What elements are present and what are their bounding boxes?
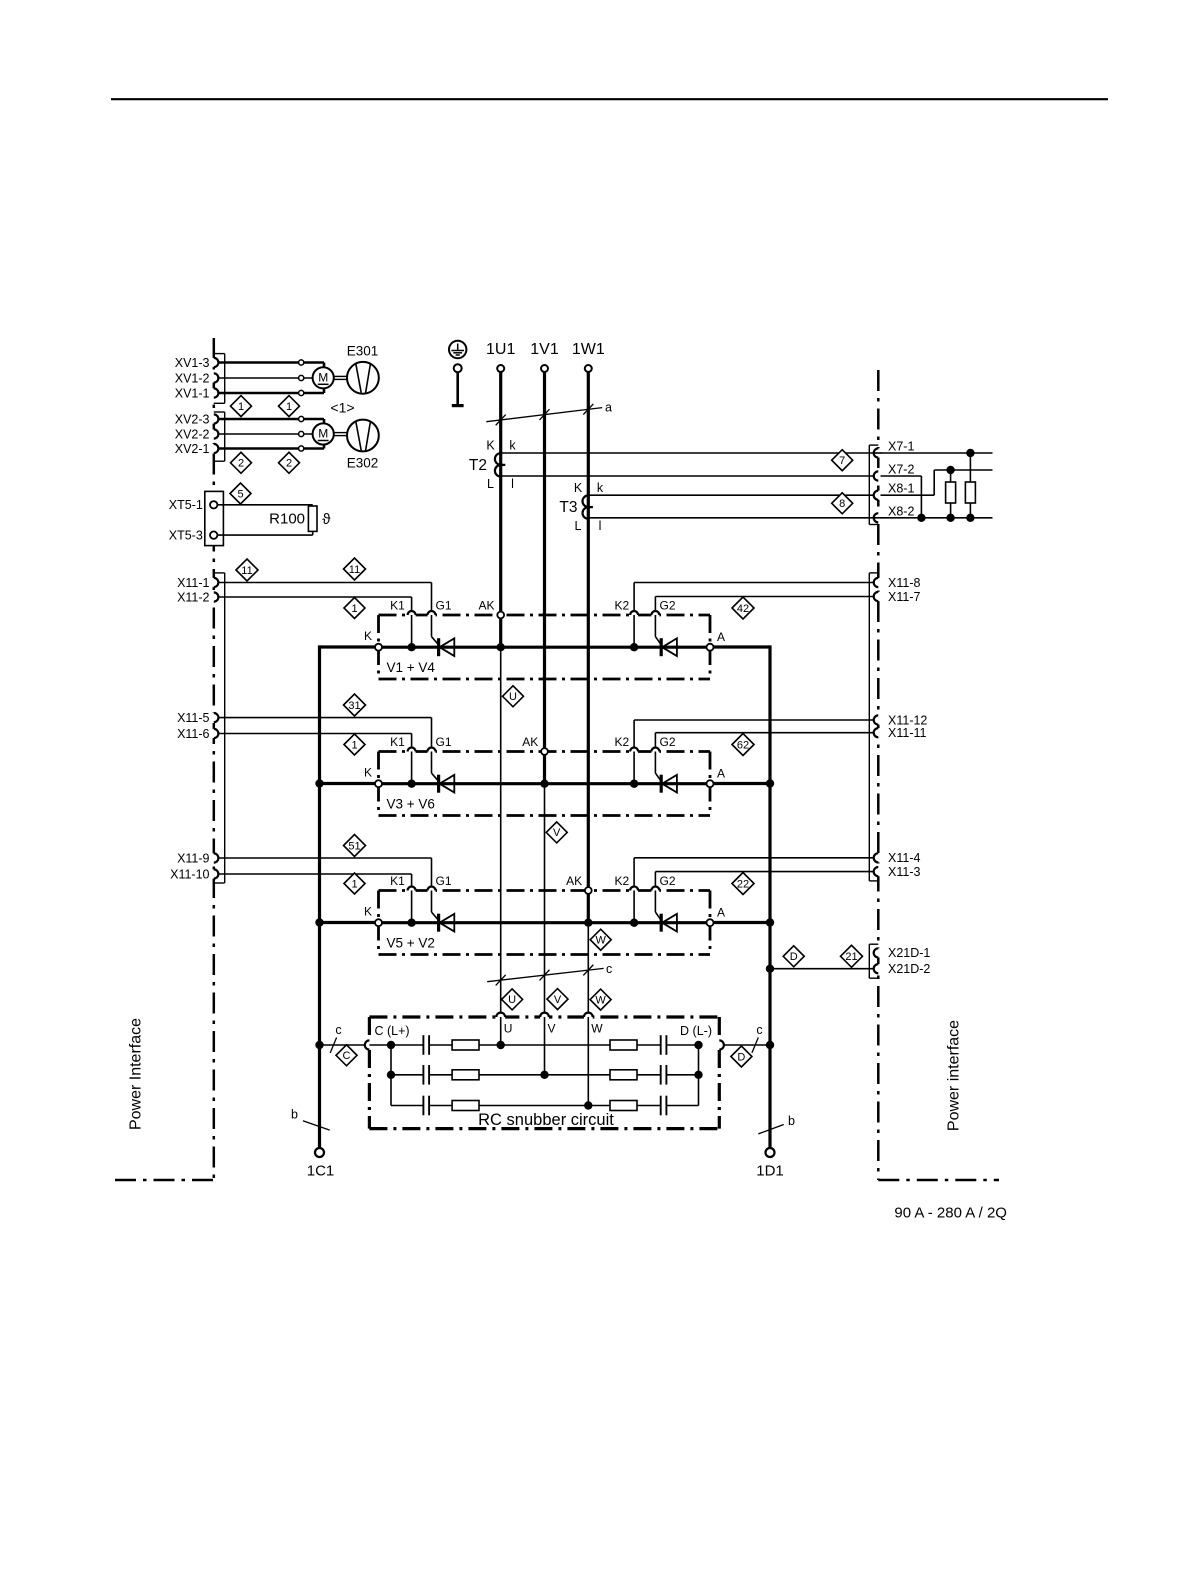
wire XT5-3 to R100 [217,534,312,536]
svg-text:l: l [599,519,602,533]
svg-text:X11-8: X11-8 [888,576,920,590]
resistor left 1 [452,1040,479,1050]
AK junction [497,643,505,651]
G1 gate lead [431,752,433,774]
wire module1 K to left bus [320,645,376,648]
terminal X8-2 [876,513,880,522]
wire phase W (below module, thin) [587,923,589,1013]
thyristor right of V3+V6 [660,775,663,793]
wire X11-11 to G2 [655,732,873,734]
diamond C [336,1045,357,1066]
svg-text:K1: K1 [390,599,405,613]
svg-text:RC snubber circuit: RC snubber circuit [478,1111,614,1129]
svg-text:c: c [756,1023,762,1037]
diamond 21 [841,945,863,967]
wire XT5-1 to R100 [217,504,312,506]
K2 interior lead [633,891,635,923]
svg-text:E301: E301 [347,343,379,358]
pin K [375,644,382,651]
svg-text:XV1-1: XV1-1 [175,386,210,400]
svg-text:L: L [487,477,494,491]
svg-text:XV2-2: XV2-2 [175,427,210,441]
diamond 11 (second) [344,558,366,580]
pin AK [497,612,504,619]
G1 gate lead [431,891,433,913]
bracket X11 right group [868,573,870,881]
terminal 1C1 [315,1148,324,1157]
svg-text:42: 42 [737,603,749,615]
header rule [111,98,1108,100]
burden resistor 2 [969,453,971,482]
RC snubber box [369,1015,719,1018]
G2 gate lead [654,615,656,637]
slash mark on phase at x=500.7 [496,415,506,426]
wire X11-10 to K1 [218,873,411,875]
svg-text:b: b [291,1108,298,1122]
svg-text:1: 1 [238,401,244,413]
snubber row 1 wires [391,1044,423,1046]
wire X11-4 to K2 [634,857,874,859]
pin G2 [651,888,659,892]
svg-text:K: K [364,629,372,643]
svg-text:T2: T2 [469,457,487,474]
motor M2 [313,423,334,444]
wire module2 K to left bus [320,782,376,785]
svg-text:XV2-1: XV2-1 [175,442,210,456]
terminal block XT5 [205,491,224,545]
wire XV2-3 to fan motor [218,418,324,421]
svg-text:U: U [508,994,516,1006]
left DC bus (C) [318,645,321,1148]
thyristor module V5+V2 box [379,889,711,892]
svg-text:ϑ: ϑ [322,511,331,528]
svg-text:X11-3: X11-3 [888,865,920,879]
svg-text:XV1-2: XV1-2 [175,371,210,385]
bracket XV1 group [224,354,226,404]
wire X11-5 to G1 [218,717,431,719]
terminal XT5-3 [210,531,217,538]
diamond U (below V1+V4) [503,686,524,707]
svg-text:c: c [606,962,612,976]
wire left bus to C(L+) [320,1044,365,1046]
diamond D (X21D wire) [783,946,804,967]
diamond 42 [732,597,754,619]
svg-text:X11-9: X11-9 [177,851,209,865]
wire module1 A to right bus [713,645,770,648]
capacitor right 3 [660,1096,662,1116]
terminal XV2-2 [212,429,216,438]
diamond V (above snubber) [547,989,568,1010]
svg-text:1: 1 [286,401,292,413]
wire T3 l to X8-2 [588,517,992,519]
svg-text:8: 8 [839,498,845,510]
K2 interior lead [633,752,635,784]
wire XV1-1 to fan motor [218,392,324,395]
thyristor module V3+V6 box [379,750,711,753]
svg-text:k: k [509,439,516,453]
thyristor left of V1+V4 [437,638,440,656]
wire D(L-) to right bus [724,1044,770,1046]
main cathode-anode wire V5+V2 [379,921,711,924]
svg-text:C: C [343,1050,351,1062]
terminal XV1-1 [212,388,216,397]
wire X11-6 to K1 [218,733,411,735]
diamond 7 [832,450,853,471]
terminal X11-10 [212,869,216,878]
diamond 1 (XV1 right) [279,396,300,417]
resistor right 1 [610,1040,637,1050]
capacitor left 3 [422,1096,424,1116]
svg-text:D: D [737,1051,745,1063]
svg-text:1D1: 1D1 [756,1163,784,1180]
pin G1 [428,613,436,617]
pin K1 [408,888,416,892]
svg-text:X21D-1: X21D-1 [888,946,930,960]
slash mark on phase at x=500.7 (c group) [496,975,506,986]
thyristor module V1+V4 box [379,614,711,617]
diamond D (snubber out) [731,1046,752,1067]
svg-text:X11-1: X11-1 [177,576,209,590]
main cathode-anode wire V3+V6 [379,782,711,785]
diamond 8 [832,493,853,514]
svg-text:2: 2 [238,458,244,470]
slash mark b (left) [303,1121,330,1130]
terminal X11-8 [876,578,880,587]
wire module2 A to right bus [713,782,770,785]
diamond 11 (near X11-1) [236,559,258,581]
resistor left 3 [452,1101,479,1111]
pin K2 [630,749,638,753]
svg-text:a: a [605,400,612,414]
svg-text:A: A [717,630,725,644]
pin G1 [428,749,436,753]
diamond 31 [344,694,366,716]
svg-text:21: 21 [845,951,857,963]
svg-text:X11-4: X11-4 [888,851,920,865]
svg-text:1V1: 1V1 [530,341,559,358]
pin AK [541,748,548,755]
svg-text:R100: R100 [269,510,305,527]
pin K2 [630,613,638,617]
burden resistor 1 [950,470,952,482]
pin W (snubber top) [584,1015,593,1019]
capacitor left 1 [422,1035,424,1055]
svg-text:T3: T3 [559,499,577,516]
resistor left 2 [452,1070,479,1080]
terminal XV2-1 [212,444,216,453]
snubber row 3 wires [391,1105,423,1107]
pin K [375,780,382,787]
K2 interior lead [633,615,635,647]
svg-text:A: A [717,767,725,781]
terminal X8-1 [876,491,880,500]
terminal X7-2 [876,471,880,480]
fan E301 [347,362,379,394]
svg-text:X21D-2: X21D-2 [888,962,930,976]
svg-text:AK: AK [566,874,582,888]
resistor R100 (temperature sensor) [308,506,317,531]
diamond 22 [732,873,754,895]
wire X11-2 to K1 [218,596,411,598]
svg-text:A: A [717,906,725,920]
slash mark on phase at x=588.3 [583,404,593,415]
K1 interior lead [411,891,413,923]
pin AK [585,887,592,894]
pin A [707,919,714,926]
svg-text:X11-7: X11-7 [888,590,920,604]
terminal X11-2 [212,592,216,601]
diamond 62 [732,734,754,756]
svg-text:X8-1: X8-1 [888,482,914,496]
diamond 5 [230,483,251,504]
right DC bus (D) [768,645,771,1148]
lead C(L+) to junction [369,1044,391,1046]
pin A [707,780,714,787]
svg-text:W: W [596,935,607,947]
slash mark c (left) [330,1038,336,1053]
pin V (snubber top) [540,1015,549,1019]
motor M1 [313,367,334,388]
main cathode-anode wire V1+V4 [379,646,711,649]
K1 interior lead [411,752,413,784]
svg-text:X7-1: X7-1 [888,439,914,453]
snubber left bus [390,1045,392,1106]
svg-text:90 A - 280 A / 2Q: 90 A - 280 A / 2Q [894,1205,1007,1222]
terminal X7-1 [876,448,880,457]
pin G2 [651,613,659,617]
svg-text:1: 1 [351,739,357,751]
fan shaft 2 [334,432,347,434]
snubber row 2 wires [391,1074,423,1076]
G2 gate lead [654,752,656,774]
svg-text:c: c [335,1023,341,1037]
snubber V lead [544,1017,546,1075]
svg-text:V3 + V6: V3 + V6 [387,797,435,812]
svg-text:K: K [486,439,495,453]
K1 interior lead [411,615,413,647]
wire phase V (thick) [543,372,546,784]
svg-text:E302: E302 [347,455,379,470]
capacitor right 2 [660,1065,662,1085]
svg-text:K2: K2 [614,874,629,888]
svg-text:2: 2 [286,458,292,470]
snubber right bus [698,1045,700,1106]
terminal X11-7 [876,592,880,601]
svg-text:G2: G2 [659,874,675,888]
svg-text:22: 22 [737,878,749,890]
wire X11-8 to K2 [634,582,874,584]
capacitor left 2 [422,1065,424,1085]
CT T3 arcs [583,495,589,507]
pin K1 [408,749,416,753]
PE ground symbol [449,341,466,358]
svg-text:1W1: 1W1 [572,341,605,358]
svg-text:D: D [790,951,798,963]
terminal X11-3 [876,867,880,876]
terminal C (L+) [367,1040,371,1049]
diamond 1 [344,873,365,894]
svg-text:5: 5 [237,488,243,500]
svg-text:G1: G1 [435,599,451,613]
svg-text:K2: K2 [614,599,629,613]
ground stem [456,372,459,404]
wire phase U (below module, thin) [500,647,502,1013]
G2 gate lead [654,891,656,913]
svg-text:L: L [575,519,582,533]
svg-text:K1: K1 [390,874,405,888]
wire X8-1 jog up and right [881,494,935,496]
svg-text:11: 11 [349,564,360,576]
wire X7-2 jog to X8-2 row [881,475,922,477]
svg-text:C (L+): C (L+) [375,1024,410,1038]
diamond W (above snubber) [590,989,611,1010]
slash mark on phase at x=544.5 [540,409,550,420]
G1 gate lead [431,615,433,637]
svg-text:51: 51 [348,840,360,852]
svg-text:X8-2: X8-2 [888,504,914,518]
terminal X11-11 [876,728,880,737]
terminal X11-5 [212,713,216,722]
wire XV2-1 to fan motor [218,447,324,450]
wire phase U (thick) [499,372,502,647]
capacitor right 1 [660,1035,662,1055]
wire right bus to X21D-2 [770,968,874,970]
svg-text:G1: G1 [435,874,451,888]
thyristor left of V3+V6 [437,775,440,793]
svg-text:W: W [591,1022,603,1036]
wire X11-9 to G1 [218,857,431,859]
svg-text:V: V [548,1022,556,1036]
svg-text:W: W [595,994,606,1006]
svg-text:X11-5: X11-5 [177,711,209,725]
svg-text:k: k [597,481,604,495]
svg-text:11: 11 [241,565,252,577]
svg-text:<1>: <1> [330,400,354,416]
bracket XV2 group [224,412,226,461]
AK junction [584,919,592,927]
wire XV1-3 to fan motor [218,361,324,364]
svg-text:D (L-): D (L-) [680,1024,712,1038]
diamond 2 (XV2 right) [279,452,300,473]
wire T2 k to X7-1 [501,452,993,454]
terminal circle 1U1 [497,365,504,372]
wire T3 k to X8-1 [588,494,873,496]
terminal D (L-) [717,1040,721,1049]
svg-text:K: K [364,905,372,919]
svg-text:31: 31 [348,700,360,712]
terminal X11-12 [876,715,880,724]
svg-text:G2: G2 [659,599,675,613]
wire module3 A to right bus [713,921,770,924]
pin K2 [630,888,638,892]
svg-text:K: K [364,766,372,780]
terminal circle 1W1 [585,365,592,372]
terminal X11-9 [212,853,216,862]
svg-text:V: V [553,827,561,839]
svg-text:b: b [788,1114,795,1128]
CT T2 arcs [495,453,501,465]
terminal X21D-1 [876,948,880,957]
svg-text:1: 1 [351,603,357,615]
svg-text:G2: G2 [659,735,675,749]
svg-text:M: M [318,371,328,385]
wire X11-7 to G2 [655,596,873,598]
slash mark b (right) [758,1125,783,1134]
svg-text:U: U [504,1022,513,1036]
wire T2 l to X7-2 [501,475,874,477]
svg-text:K1: K1 [390,735,405,749]
diamond 1 (XV1 left) [231,396,252,417]
svg-text:V: V [554,994,562,1006]
fan shaft 1 [334,375,347,377]
snubber W lead [587,1017,589,1106]
slash mark c (right) [752,1038,758,1053]
terminal X11-1 [212,578,216,587]
terminal XV1-3 [212,358,216,367]
svg-text:XT5-3: XT5-3 [169,528,203,542]
svg-text:1U1: 1U1 [486,341,515,358]
pin K1 [408,613,416,617]
svg-text:G1: G1 [435,735,451,749]
svg-text:Power Interface: Power Interface [128,1018,145,1130]
svg-text:U: U [509,691,517,703]
resistor right 3 [610,1101,637,1111]
svg-text:X11-2: X11-2 [177,590,209,604]
svg-text:1C1: 1C1 [307,1163,335,1180]
pin K [375,919,382,926]
wire X11-1 to G1 [218,582,431,584]
svg-text:AK: AK [478,599,494,613]
ground stem circle [454,364,462,372]
svg-text:XT5-1: XT5-1 [169,498,203,512]
diamond 1 [344,734,365,755]
terminal 1D1 [766,1148,775,1157]
svg-text:X11-6: X11-6 [177,727,209,741]
thyristor left of V5+V2 [437,914,440,932]
terminal X21D-2 [876,964,880,973]
svg-text:M: M [318,427,328,441]
wire X11-3 to G2 [655,871,873,873]
svg-text:K2: K2 [614,735,629,749]
group line a [486,408,602,422]
snubber U lead [500,1017,502,1045]
svg-text:62: 62 [737,739,749,751]
terminal XV2-3 [212,414,216,423]
wire phase W (thick) [587,372,590,923]
pin A [707,644,714,651]
wire phase V (below module, thin) [544,784,546,1013]
thyristor right of V1+V4 [660,638,663,656]
terminal XV1-2 [212,373,216,382]
svg-text:X11-10: X11-10 [170,867,209,881]
terminal X11-4 [876,853,880,862]
ground bar [452,404,464,407]
wire module3 K to left bus [320,921,376,924]
terminal circle 1V1 [541,365,548,372]
svg-text:V5 + V2: V5 + V2 [387,936,435,951]
fan E302 [347,420,379,452]
svg-text:XV1-3: XV1-3 [175,356,210,370]
power interface right border [877,370,880,1180]
svg-text:Power interface: Power interface [945,1020,962,1131]
diamond W (below V5+V2) [590,929,611,950]
bracket X21D group [868,944,870,978]
pin G2 [651,749,659,753]
connector points on XV1 wires [299,360,304,365]
terminal X11-6 [212,729,216,738]
AK junction [540,780,548,788]
connector points on XV2 wires [299,416,304,421]
